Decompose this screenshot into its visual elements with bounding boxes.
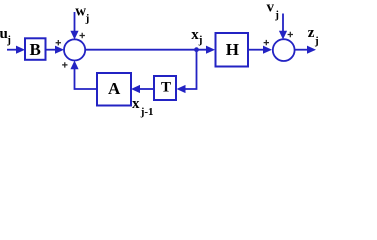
arrowhead into B <box>16 46 25 54</box>
svg-text:j: j <box>314 35 319 47</box>
plus sign sum1 bottom input <box>62 62 67 67</box>
svg-text:j: j <box>198 34 203 46</box>
arrowhead feedback into sum1 bottom <box>70 61 78 70</box>
wire H to sum2 <box>248 49 263 51</box>
arrowhead output z <box>307 46 316 54</box>
svg-text:x: x <box>132 96 140 112</box>
wire v_j down <box>282 14 284 33</box>
wire sum1 to H <box>85 49 207 51</box>
arrowhead into sum2 left <box>263 46 272 54</box>
svg-text:j: j <box>6 34 11 46</box>
summing junction sum1 <box>64 39 85 60</box>
plus sign sum2 top input <box>288 32 293 37</box>
arrowhead v into sum2 top <box>279 31 287 40</box>
block H <box>216 33 249 67</box>
node junction dot at x_j tap <box>194 47 199 52</box>
arrowhead into T <box>177 85 186 93</box>
arrowhead w into sum1 top <box>70 31 78 40</box>
plus sign sum1 left input <box>56 40 61 45</box>
wire u_j to B <box>7 49 18 51</box>
wire B to sum1 <box>46 49 56 51</box>
plus sign sum1 top input <box>80 33 85 38</box>
wire T to A <box>140 88 154 90</box>
svg-text:A: A <box>108 79 121 98</box>
block A <box>97 73 131 106</box>
arrowhead into H <box>206 46 215 54</box>
arrowhead into sum1 left <box>55 46 64 54</box>
block B <box>25 38 46 60</box>
svg-text:j: j <box>274 9 279 21</box>
summing junction sum2 <box>273 39 295 61</box>
wire sum2 to z_j output <box>294 49 308 51</box>
block T <box>154 76 176 100</box>
svg-text:j: j <box>85 12 90 24</box>
arrowhead into A <box>131 85 140 93</box>
svg-text:v: v <box>267 0 275 16</box>
plus sign sum2 left input <box>264 40 269 45</box>
svg-text:z: z <box>308 25 315 41</box>
svg-text:T: T <box>161 79 171 95</box>
wire w_j down <box>74 12 76 33</box>
wire A to sum1 bottom <box>75 69 98 89</box>
svg-text:j-1: j-1 <box>140 106 154 118</box>
wire feedback drop from node <box>186 50 197 89</box>
svg-text:H: H <box>226 40 239 59</box>
svg-text:B: B <box>30 40 41 59</box>
